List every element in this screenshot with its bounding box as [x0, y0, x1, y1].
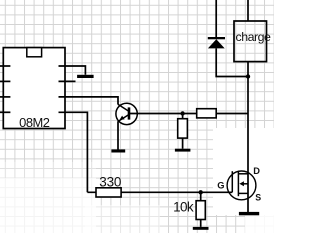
svg-text:330: 330 [99, 174, 121, 189]
IC left pin 2 [0, 80, 10, 82]
MOSFET Q2 body [227, 171, 256, 200]
transistor Q1 emitter diagonal [118, 115, 129, 122]
MOSFET Q2 source stub [238, 192, 248, 194]
IC right pin 5 [59, 111, 76, 113]
IC left pin 3 [0, 96, 10, 98]
transistor Q1 emitter arrow [120, 116, 125, 120]
MOSFET Q2 arrow head [239, 181, 244, 186]
wire pin8 to supply [76, 66, 86, 75]
wire charge box top feed [247, 0, 249, 21]
junction node dot [180, 111, 184, 115]
MOSFET Q2 channel bar [237, 172, 239, 196]
svg-text:08M2: 08M2 [19, 115, 50, 130]
ground bar (emitter) [111, 149, 125, 152]
wire resistor to ground [182, 138, 184, 149]
resistor R1 body (pull-down) [178, 119, 188, 138]
transistor Q1 collector diagonal [118, 104, 129, 111]
IC left pin 4 [0, 111, 10, 113]
charge box [234, 21, 267, 62]
wire resistor R2 to drain column [216, 113, 248, 115]
wire 10k to ground [200, 220, 202, 227]
IC U1 notch [27, 48, 42, 57]
wire junction to resistor [182, 114, 184, 119]
diode D1 cathode bar [208, 37, 225, 39]
ground bar (R1) [175, 149, 191, 152]
wire base rail [129, 113, 197, 115]
IC U1 body [3, 48, 65, 129]
svg-text:S: S [255, 193, 261, 203]
ground bar (MOSFET source) [239, 212, 259, 215]
resistor 10k body [196, 201, 205, 220]
wire drain column [247, 62, 249, 212]
IC right pin 6 [59, 96, 76, 98]
MOSFET Q2 drain stub [238, 173, 248, 175]
IC left pin 1 [0, 65, 10, 67]
transistor Q1 body [116, 103, 137, 124]
svg-text:charge: charge [236, 30, 271, 44]
resistor R2 body (series, horizontal) [197, 109, 217, 118]
diode D1 triangle [208, 39, 225, 48]
junction node dot (diode/charge) [246, 74, 250, 78]
wire gate rail [87, 191, 232, 193]
wire pin5 to 330 [76, 112, 88, 192]
IC right pin 8 [59, 65, 76, 67]
wire pin6 to transistor collector [76, 97, 119, 105]
svg-text:10k: 10k [173, 199, 194, 214]
wire emitter to ground [117, 121, 119, 149]
MOSFET Q2 gate bar [231, 171, 233, 192]
wire junction to 10k [200, 192, 202, 200]
transistor Q1 base bar [128, 107, 131, 119]
wire top feed (diode branch) [215, 0, 217, 37]
IC right pin 7 [59, 80, 76, 82]
resistor 330 body [96, 188, 121, 197]
MOSFET Q2 arrow line [243, 183, 248, 185]
wire diode anode down and right [216, 48, 248, 76]
svg-text:G: G [217, 181, 224, 191]
svg-text:D: D [253, 166, 260, 176]
supply rail bar [77, 75, 94, 78]
junction node dot (gate/10k) [199, 190, 203, 194]
ground bar (10k) [193, 227, 209, 230]
